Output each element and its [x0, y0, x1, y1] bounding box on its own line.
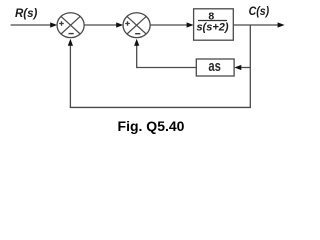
- svg-text:as: as: [208, 57, 221, 74]
- svg-text:Fig. Q5.40: Fig. Q5.40: [118, 118, 185, 134]
- svg-text:R(s): R(s): [15, 8, 38, 20]
- svg-text:C(s): C(s): [249, 6, 270, 19]
- svg-text:s(s+2): s(s+2): [196, 22, 228, 34]
